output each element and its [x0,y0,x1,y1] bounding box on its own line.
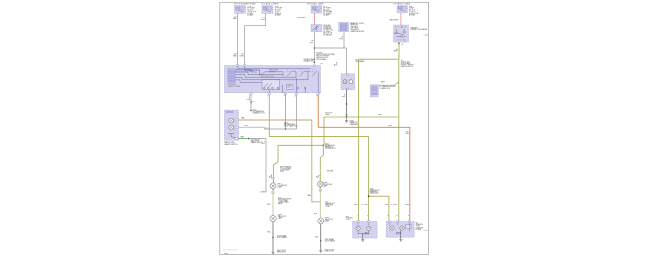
svg-text:S/T LP: S/T LP [365,234,370,236]
svg-text:C100: C100 [423,35,428,37]
wire below sensor to ground [346,90,348,120]
svg-text:HAZARD SW: HAZARD SW [304,60,315,63]
wire WHT from U1 pin E to tan run [268,95,270,137]
wire gray jog from S1 to U1 pin G [238,127,296,129]
svg-text:C2: C2 [266,128,268,130]
wire WHT branch at y117 to left [324,116,399,118]
svg-text:HOT AT ALL TIMES: HOT AT ALL TIMES [394,2,411,5]
wire ORN from U1 pin H [317,95,319,128]
wire WHT horizontal from U1 pin E to right leg [269,137,368,197]
svg-text:WHT: WHT [378,114,382,116]
svg-text:H: H [316,96,317,98]
ground G200 [346,119,348,122]
svg-text:ORN: ORN [240,55,245,57]
svg-text:RH SIDE: RH SIDE [327,170,335,172]
lamp L2 left tail/stop lamp [270,216,276,222]
svg-text:B: B [401,27,402,29]
wire from B3 (RED) [313,13,315,24]
svg-text:SWITCH: SWITCH [269,71,277,73]
svg-text:S/T LP: S/T LP [396,233,401,235]
svg-text:LAMPS MODULE: LAMPS MODULE [350,30,365,33]
svg-text:CONN): CONN) [416,229,422,231]
ground below T1 [362,234,364,239]
wire gray vertical to rear connector [265,139,267,193]
svg-text:C8: C8 [321,63,323,65]
svg-text:C2: C2 [252,101,254,103]
wire WHT left leg to stop lamp [358,59,360,221]
branch to trailer block R [369,196,389,221]
svg-text:AT BAT: AT BAT [409,14,416,17]
svg-text:CONNECTOR: CONNECTOR [379,88,391,90]
ground below T2 [400,231,402,239]
svg-text:49-2 Exterior Lights: 49-2 Exterior Lights [223,249,238,252]
svg-text:RED/WHT: RED/WHT [297,17,306,19]
svg-text:TURN: TURN [287,85,291,87]
splice S326 label [285,128,287,130]
lamp R2 right tail/stop lamp [318,218,324,224]
splice S247 [250,110,251,111]
svg-text:ORN: ORN [261,19,266,21]
page border frame [220,2,429,254]
svg-text:1: 1 [357,215,358,217]
svg-text:LAMPS SWITCH: LAMPS SWITCH [224,143,238,146]
svg-text:E: E [267,96,268,98]
svg-text:STOP LAMP CKT): STOP LAMP CKT) [284,125,298,128]
wire GRN stub with connector and label [238,138,246,140]
connector block T1 trailer lamps (left) [353,222,378,239]
svg-text:BT RELAY): BT RELAY) [323,33,332,36]
svg-text:CARRIER): CARRIER) [350,123,359,126]
svg-text:F: F [284,96,285,98]
right chain upper [320,145,323,181]
svg-text:WHT: WHT [385,204,389,206]
switch S1 headlamp switch [224,110,238,140]
wire WHT trunk from K1 [398,59,400,221]
ground G401 left [272,250,274,253]
relay K2 hazard flasher [311,24,322,31]
splice S411 [323,145,325,147]
svg-text:P/T WHT: P/T WHT [391,204,398,206]
wire below K2 (BLK to junction) [313,32,315,64]
splice S409 [320,240,321,241]
wire TAN main run [238,120,320,202]
connector C1 trailer connector [370,85,378,97]
wire below K1 (WHT) [398,42,400,59]
svg-text:3: 3 [367,215,368,217]
lamp R1 right park/turn signal lamp [318,181,324,187]
svg-text:P/TURN CKT): P/TURN CKT) [325,148,336,150]
svg-text:49-3): 49-3) [280,171,284,173]
connector block T2 trailer lamps (right) [386,222,414,238]
wire branch to sensor [314,47,346,49]
wire gray from U1 pin G [296,95,298,130]
splice S408 [272,237,273,238]
wire ORN run to trailer stop block [318,127,410,221]
svg-text:P/T WHT: P/T WHT [361,204,368,206]
svg-text:FEED: FEED [325,114,330,116]
svg-text:E: E [396,215,397,217]
svg-text:MULTIFUNCTION: MULTIFUNCTION [261,76,275,78]
svg-text:CONNECTOR RELAY: CONNECTOR RELAY [410,28,428,31]
svg-text:4HB: 4HB [224,253,229,255]
svg-text:PPL: PPL [340,38,343,40]
svg-text:DIMMING CKT): DIMMING CKT) [253,113,265,115]
svg-text:ON TIE BAR): ON TIE BAR) [316,58,327,61]
wire from U1 pin F to splice S326 [285,95,287,130]
svg-text:WHT: WHT [381,82,385,84]
svg-text:C305: C305 [423,230,428,232]
ground G402 right [320,249,322,252]
svg-text:RED/ORN: RED/ORN [389,19,398,21]
svg-text:LAMPS FLASH: LAMPS FLASH [228,85,241,88]
sensor DRL ambient light sensor [341,74,355,90]
svg-text:TOW: TOW [346,219,350,221]
connector C2 DRL module [339,22,349,31]
svg-text:(BELOW LH I/P): (BELOW LH I/P) [401,66,414,68]
svg-text:F: F [408,215,409,217]
svg-text:HOT IN RUN AND START: HOT IN RUN AND START [234,3,257,6]
svg-text:HOT AT ALL TIMES: HOT AT ALL TIMES [307,3,324,6]
svg-text:5 BRN: 5 BRN [260,192,266,194]
wire WHT branch left at y59 [359,58,399,60]
wire from B2 (ORN) [245,13,266,65]
wire from B1 (TAN) [237,13,239,65]
wire PNK from U1 with connector [250,95,252,111]
relay K1 trailer battery feed relay [394,25,409,42]
svg-text:STOP CKT): STOP CKT) [370,193,379,195]
svg-text:TERMINAL: TERMINAL [356,60,365,63]
svg-text:WHT: WHT [354,204,358,206]
svg-text:15 AMP: 15 AMP [247,14,254,17]
svg-text:20 AMP: 20 AMP [323,14,330,17]
wire from DRL module [343,32,345,48]
wire from B4 (RED/ORN) [400,13,402,25]
svg-text:20 AMP: 20 AMP [275,14,282,17]
